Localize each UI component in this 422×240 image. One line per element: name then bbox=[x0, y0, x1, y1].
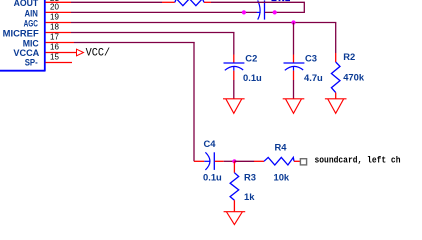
wire C3 to ground bbox=[293, 80, 295, 99]
ground for R2 bbox=[325, 99, 347, 114]
svg-text:C3: C3 bbox=[305, 52, 317, 63]
junction dot AGC/C3 bbox=[291, 20, 295, 24]
svg-text:17: 17 bbox=[50, 33, 59, 42]
svg-text:SP-: SP- bbox=[25, 56, 38, 67]
capacitor C4 lead into curved plate bbox=[204, 160, 210, 162]
resistor R4 right stub bbox=[294, 160, 300, 162]
port square bbox=[300, 159, 306, 165]
wire AOUT to corner bbox=[211, 1, 305, 3]
wire MIC row bbox=[74, 42, 195, 44]
junction dot node bbox=[232, 159, 236, 163]
wire down to R2 bbox=[335, 23, 337, 54]
wire MICREF row bbox=[71, 32, 235, 34]
junction dot right of C1 bbox=[273, 10, 277, 14]
capacitor C3 lead into curved plate bbox=[293, 67, 295, 71]
resistor R3 bottom stub bbox=[233, 200, 235, 211]
capacitor C2 top plate bbox=[224, 62, 245, 64]
IC U1 body bottom edge bbox=[0, 70, 46, 72]
resistor R4 left stub bbox=[254, 160, 264, 162]
wire junction to R4 bbox=[234, 160, 254, 162]
svg-text:VCC/: VCC/ bbox=[86, 48, 111, 60]
capacitor C3 top stub bbox=[293, 55, 295, 63]
svg-text:R2: R2 bbox=[343, 51, 355, 62]
ground for R3 bbox=[224, 212, 246, 225]
svg-text:19: 19 bbox=[50, 13, 59, 22]
resistor R2 zigzag bbox=[331, 62, 340, 93]
wire down to C3 bbox=[293, 23, 295, 55]
resistor R3 top stub bbox=[233, 161, 235, 172]
capacitor C1 straight plate bbox=[264, 0, 266, 19]
svg-text:C2: C2 bbox=[245, 52, 257, 63]
resistor R2 top stub bbox=[335, 53, 337, 62]
ground for C2 bbox=[223, 99, 245, 114]
capacitor C4 left stub bbox=[194, 160, 204, 162]
IC U1 body right edge bbox=[44, 0, 46, 71]
wire C4 to junction bbox=[224, 160, 236, 162]
svg-text:16: 16 bbox=[50, 43, 59, 52]
resistor R1 right stub bbox=[204, 1, 211, 3]
resistor R3 zigzag bbox=[230, 173, 239, 201]
capacitor C2 curved plate bbox=[225, 66, 243, 70]
wire AIN row left bbox=[71, 11, 257, 13]
resistor R4 zigzag bbox=[264, 157, 294, 165]
pin 17 stub bbox=[46, 42, 75, 44]
capacitor C3 top plate bbox=[284, 62, 305, 64]
svg-text:R4: R4 bbox=[275, 142, 288, 153]
pin 19 stub bbox=[46, 22, 72, 24]
svg-text:soundcard, left ch: soundcard, left ch bbox=[315, 155, 401, 166]
pin 21 stub bbox=[46, 1, 72, 3]
wire AGC row bbox=[71, 22, 336, 24]
capacitor C2 lead into curved plate bbox=[233, 67, 235, 71]
svg-text:C4: C4 bbox=[204, 138, 217, 149]
wire AIN row right bbox=[265, 11, 305, 13]
wire down to C2 bbox=[233, 33, 235, 55]
capacitor C3 bottom stub bbox=[293, 71, 295, 80]
wire corner down bbox=[303, 2, 305, 12]
wire C2 to ground bbox=[233, 80, 235, 99]
svg-text:470k: 470k bbox=[343, 72, 365, 83]
svg-text:10k: 10k bbox=[274, 171, 290, 182]
svg-text:0.1u: 0.1u bbox=[203, 172, 222, 183]
ground for C3 bbox=[283, 99, 305, 114]
capacitor C2 top stub bbox=[233, 55, 235, 63]
capacitor C1 value remnant bbox=[272, 0, 291, 1]
resistor R1 zigzag (cut off at top) bbox=[175, 0, 204, 6]
svg-text:1k: 1k bbox=[244, 191, 255, 202]
svg-text:15: 15 bbox=[50, 53, 59, 62]
wire AOUT row bbox=[71, 1, 162, 3]
svg-text:R3: R3 bbox=[244, 171, 256, 182]
capacitor C1 curved plate bbox=[258, 0, 260, 19]
svg-text:20: 20 bbox=[50, 3, 59, 12]
pin 16 stub bbox=[46, 52, 77, 54]
svg-text:18: 18 bbox=[50, 23, 59, 32]
resistor R2 bottom stub bbox=[335, 93, 337, 99]
capacitor C2 bottom stub bbox=[233, 71, 235, 80]
pin 20 stub bbox=[46, 11, 72, 13]
capacitor C1 lead into curved plate bbox=[257, 11, 261, 13]
capacitor C3 curved plate bbox=[285, 66, 303, 70]
capacitor C4 curved plate bbox=[205, 152, 210, 170]
pin 18 stub bbox=[46, 32, 72, 34]
junction dot left of C1 bbox=[242, 10, 246, 14]
capacitor C4 straight plate bbox=[213, 152, 215, 170]
power symbol VCC arrow bbox=[77, 49, 84, 56]
capacitor C4 right stub bbox=[215, 160, 224, 162]
svg-text:4.7u: 4.7u bbox=[304, 72, 323, 83]
svg-text:0.1u: 0.1u bbox=[243, 72, 262, 83]
pin 15 stub bbox=[46, 62, 73, 64]
resistor R1 left stub bbox=[162, 1, 175, 3]
wire MIC down bbox=[193, 43, 195, 162]
